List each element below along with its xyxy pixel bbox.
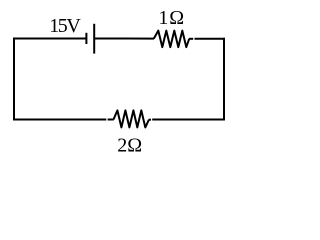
resistor R1 1 ohm zigzag xyxy=(154,31,189,47)
wire battery to resistor 1 ohm xyxy=(94,38,154,40)
wire bottom-right to corner xyxy=(152,119,225,121)
resistor R2 2 ohm zigzag xyxy=(114,110,149,127)
svg-text:15V: 15V xyxy=(49,15,81,37)
wire short stub before resistor 2 ohm xyxy=(108,119,114,121)
battery 15V short plate (negative) xyxy=(85,33,87,44)
svg-text:1Ω: 1Ω xyxy=(158,7,184,29)
battery 15V long plate (positive) xyxy=(93,24,95,54)
wire bottom-left (to resistor 2 ohm) xyxy=(13,119,106,121)
wire left side xyxy=(13,38,15,120)
wire top-left (to battery) xyxy=(13,38,87,40)
wire right side xyxy=(223,38,225,120)
wire resistor 1 ohm to top-right corner (with tiny break) xyxy=(189,38,193,40)
svg-text:2Ω: 2Ω xyxy=(117,135,142,157)
wire stub after resistor 2 ohm xyxy=(149,119,151,121)
